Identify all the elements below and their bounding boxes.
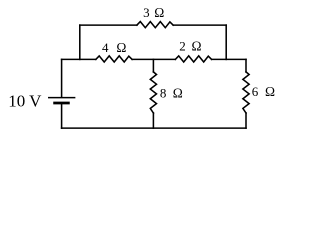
wire 6 ohm branch upper stub — [245, 59, 247, 72]
svg-text:Ω: Ω — [116, 40, 126, 55]
wire battery branch upper — [61, 59, 63, 97]
wire bottom rail — [62, 127, 246, 129]
wire left vertical of top loop — [79, 25, 81, 59]
resistor 6 ohm (vertical) — [243, 72, 249, 113]
svg-text:10 V: 10 V — [8, 91, 42, 110]
wire 8 ohm branch lower stub — [152, 113, 154, 128]
svg-text:Ω: Ω — [173, 85, 183, 100]
wire battery branch lower — [61, 103, 63, 128]
svg-text:3: 3 — [143, 5, 150, 20]
battery V1 negative plate — [55, 102, 69, 105]
resistor 4 ohm (middle) — [96, 56, 132, 62]
resistor 8 ohm (vertical) — [150, 72, 156, 113]
svg-text:4: 4 — [102, 40, 109, 55]
svg-text:Ω: Ω — [265, 84, 275, 99]
wire 8 ohm branch upper stub — [152, 59, 154, 72]
svg-text:Ω: Ω — [192, 39, 202, 54]
svg-text:6: 6 — [252, 84, 259, 99]
wire top-right segment — [173, 24, 226, 26]
wire top-left segment — [80, 24, 137, 26]
wire 6 ohm branch lower stub — [245, 113, 247, 128]
svg-text:Ω: Ω — [154, 5, 164, 20]
wire middle center segment — [132, 58, 175, 60]
svg-text:8: 8 — [160, 85, 167, 100]
resistor 3 ohm (top) — [137, 22, 173, 28]
wire middle right segment — [212, 58, 246, 60]
resistor 2 ohm (middle) — [175, 56, 211, 62]
svg-text:2: 2 — [179, 39, 186, 54]
wire right vertical of top loop — [225, 25, 227, 59]
battery V1 positive plate — [49, 97, 75, 99]
wire middle left segment (node A to 4 ohm) — [62, 58, 96, 60]
